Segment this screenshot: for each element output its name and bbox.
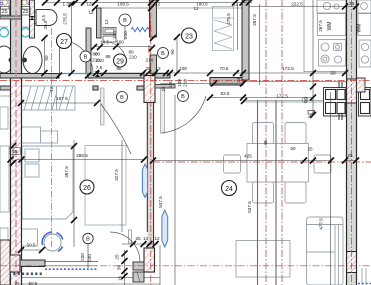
svg-text:88: 88	[116, 66, 122, 71]
svg-text:537.5: 537.5	[247, 201, 252, 213]
svg-text:288.5: 288.5	[76, 153, 88, 158]
svg-text:50: 50	[330, 71, 336, 76]
svg-text:25: 25	[23, 9, 29, 15]
svg-text:387.5: 387.5	[64, 166, 69, 178]
svg-text:287.5: 287.5	[252, 14, 257, 26]
svg-text:48: 48	[263, 140, 268, 146]
svg-text:12: 12	[193, 6, 199, 11]
svg-text:25: 25	[14, 281, 20, 285]
svg-text:88: 88	[105, 54, 111, 59]
svg-text:12: 12	[154, 236, 160, 241]
svg-text:200: 200	[80, 253, 85, 261]
svg-text:25: 25	[2, 9, 8, 15]
svg-text:50.5: 50.5	[29, 281, 38, 285]
svg-text:108.5: 108.5	[117, 2, 129, 7]
svg-text:425: 425	[244, 154, 252, 159]
svg-text:25: 25	[12, 149, 18, 154]
svg-text:12: 12	[49, 86, 54, 92]
svg-text:12: 12	[233, 2, 239, 7]
svg-text:WM: WM	[327, 22, 333, 31]
svg-text:275.5: 275.5	[226, 13, 231, 25]
svg-text:50: 50	[290, 146, 296, 151]
svg-text:222.5: 222.5	[291, 2, 303, 7]
svg-text:15: 15	[118, 276, 123, 282]
svg-text:B: B	[123, 18, 127, 24]
svg-text:172.5: 172.5	[282, 66, 294, 71]
svg-text:275.5: 275.5	[63, 13, 68, 25]
svg-text:25: 25	[115, 254, 120, 260]
svg-text:187.5: 187.5	[56, 96, 68, 101]
svg-text:70.5: 70.5	[220, 66, 229, 71]
svg-text:210: 210	[129, 55, 137, 60]
svg-text:210: 210	[123, 31, 128, 39]
svg-text:25: 25	[347, 153, 353, 158]
svg-text:210: 210	[96, 58, 104, 63]
svg-text:12: 12	[86, 2, 92, 7]
svg-text:240: 240	[87, 254, 92, 262]
svg-text:60: 60	[303, 97, 308, 103]
svg-text:100: 100	[112, 31, 117, 39]
svg-text:WM: WM	[357, 24, 363, 33]
svg-text:1.38: 1.38	[63, 2, 72, 7]
svg-text:90: 90	[170, 49, 175, 55]
svg-text:27: 27	[60, 39, 68, 46]
svg-text:477.5: 477.5	[319, 218, 324, 230]
svg-text:210: 210	[146, 58, 154, 63]
svg-text:24: 24	[225, 186, 233, 193]
svg-text:12: 12	[104, 19, 109, 25]
svg-text:25: 25	[135, 236, 141, 241]
svg-text:12: 12	[155, 2, 161, 7]
svg-text:12: 12	[155, 66, 161, 71]
svg-text:82.5: 82.5	[221, 91, 230, 96]
svg-text:210: 210	[183, 79, 188, 87]
svg-text:36: 36	[117, 265, 122, 271]
svg-text:B: B	[181, 94, 185, 100]
svg-text:100: 100	[116, 40, 124, 45]
svg-text:172.5: 172.5	[276, 94, 288, 99]
svg-text:24: 24	[236, 77, 241, 83]
svg-text:14.5: 14.5	[100, 40, 109, 45]
svg-text:50.5: 50.5	[27, 243, 36, 248]
svg-text:B: B	[84, 55, 88, 61]
svg-text:6.5: 6.5	[41, 14, 46, 20]
svg-text:80: 80	[95, 52, 101, 57]
svg-text:B: B	[161, 51, 165, 57]
svg-text:537.5: 537.5	[158, 196, 163, 208]
svg-text:100: 100	[177, 79, 182, 87]
svg-text:B: B	[120, 95, 124, 101]
svg-text:25: 25	[307, 147, 313, 152]
svg-text:29: 29	[116, 59, 124, 66]
svg-text:108: 108	[179, 66, 187, 71]
svg-text:120: 120	[168, 80, 173, 88]
svg-text:25: 25	[349, 1, 355, 6]
svg-text:267.5: 267.5	[318, 20, 323, 32]
svg-text:90: 90	[44, 55, 49, 61]
svg-text:26: 26	[83, 185, 91, 192]
svg-text:12: 12	[88, 10, 94, 15]
svg-text:25: 25	[145, 66, 151, 71]
svg-text:327.5: 327.5	[114, 169, 119, 181]
svg-text:12: 12	[161, 86, 166, 92]
svg-text:23: 23	[185, 34, 193, 41]
svg-text:7.5: 7.5	[96, 65, 103, 70]
svg-text:B: B	[86, 237, 90, 243]
svg-text:13: 13	[143, 236, 149, 241]
